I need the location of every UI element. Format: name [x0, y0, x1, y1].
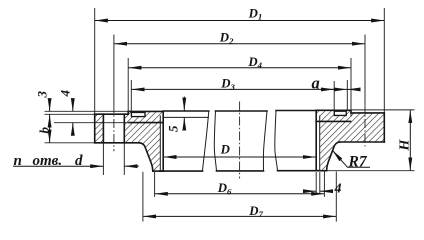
D4 ext left	[127, 58, 129, 114]
medium lines	[160, 111, 319, 172]
right OD edge	[383, 113, 385, 142]
break line left B	[214, 111, 216, 171]
4 top arrow	[72, 101, 74, 111]
centerlines dash-dot	[114, 102, 365, 179]
gasket groove slot left	[131, 112, 145, 116]
4R arrows	[304, 190, 317, 192]
svg-text:3: 3	[35, 91, 50, 99]
D1 dim line	[95, 20, 384, 22]
break line left A	[203, 111, 209, 171]
bolt hole centerline left	[113, 104, 115, 151]
svg-text:отв.: отв.	[33, 153, 63, 169]
hatch left main body	[124, 111, 163, 171]
H bottom ref / hub bottom ext	[327, 170, 415, 172]
D6 ext left	[154, 172, 156, 197]
break line right A	[263, 111, 267, 171]
right internal face line	[316, 120, 350, 122]
D2 dim line	[114, 43, 365, 45]
svg-text:4: 4	[334, 182, 342, 197]
label n otv. d	[14, 153, 84, 169]
H dim line	[409, 110, 411, 170]
D1 ext right	[383, 8, 385, 113]
3/4 ref line y=111.3	[45, 110, 129, 112]
right hub taper	[327, 142, 340, 171]
D3 ext left	[130, 80, 132, 111]
svg-text:R7: R7	[348, 154, 368, 171]
D2 ext right	[364, 35, 366, 105]
n otv d arrows	[13, 165, 103, 167]
right step down	[350, 110, 352, 113]
D3 / a ext right	[346, 80, 348, 110]
svg-text:n: n	[14, 153, 22, 169]
a dim arrows (outside)	[325, 88, 334, 90]
D7 dim line	[143, 215, 336, 217]
left step up	[127, 111, 129, 114]
D7 ext left	[142, 172, 144, 222]
D1 ext left	[94, 8, 96, 114]
hatch right main body	[316, 110, 384, 170]
4 bottom arrow	[72, 123, 74, 132]
left rim top	[128, 110, 163, 112]
D6 dim line	[155, 193, 324, 195]
H top ref	[352, 109, 415, 111]
bolt hole centerline right	[364, 104, 366, 147]
left hub bottom	[153, 170, 163, 172]
recess line seen through bore (left)	[163, 116, 209, 118]
R7 leader	[332, 150, 370, 167]
D4 dim line	[128, 67, 350, 69]
D7 ext right	[335, 172, 337, 222]
svg-text:5: 5	[166, 125, 181, 132]
n otv d ext lines	[102, 143, 104, 175]
left internal face line	[129, 122, 163, 124]
b bottom ref line	[45, 142, 95, 144]
bottom edge through bore (3 segments)	[160, 170, 202, 172]
svg-text:a: a	[312, 74, 320, 93]
right rim top	[316, 109, 351, 111]
gasket groove slot right	[334, 111, 346, 115]
D4 ext right	[350, 58, 352, 117]
b dim line	[49, 115, 51, 143]
4R ext lines	[315, 172, 317, 195]
right annulus top	[351, 112, 384, 114]
3/b ref line y=114.3	[45, 113, 95, 115]
left annulus top	[95, 113, 129, 115]
left OD edge	[94, 114, 96, 143]
left hub taper	[140, 143, 153, 171]
3 top arrow	[49, 101, 51, 111]
svg-text:D: D	[220, 143, 230, 157]
break line right B	[275, 111, 278, 171]
right flange bottom	[340, 141, 385, 143]
right bore wall	[315, 110, 317, 170]
D2 ext left	[113, 35, 115, 105]
D6 ext right	[323, 172, 325, 197]
hatch left outer strip	[95, 114, 104, 143]
top edge through bore (3 segments between breaks)	[163, 110, 209, 112]
5 dim arrows	[183, 97, 185, 111]
D dim line	[164, 156, 316, 158]
left bolt hole walls	[102, 114, 104, 143]
svg-text:4: 4	[57, 90, 72, 98]
svg-text:d: d	[75, 153, 83, 169]
4 bottom ref line	[54, 122, 128, 124]
svg-text:b: b	[37, 127, 52, 134]
main axis	[239, 102, 241, 179]
left weld bevel line	[159, 116, 161, 172]
a ext left	[333, 81, 335, 110]
right hub bottom	[316, 170, 326, 172]
left bore wall	[162, 111, 164, 171]
left flange bottom	[95, 142, 140, 144]
svg-text:H: H	[398, 139, 413, 152]
right weld bevel line	[319, 116, 321, 171]
D3 dim line	[132, 88, 348, 90]
